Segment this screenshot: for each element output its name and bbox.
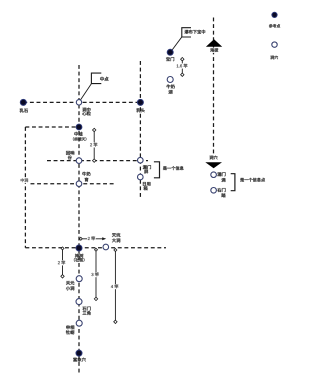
dimension line 2竿 upper <box>89 128 98 162</box>
callout text 瀑布下宝中 <box>184 30 205 34</box>
node 回响谷 <box>66 151 82 164</box>
node 漏门屏 <box>138 157 151 173</box>
legend 洞穴 <box>270 42 278 59</box>
node 牛奶育 <box>76 172 90 187</box>
dimension line 2竿 left <box>57 247 66 278</box>
triangle down 洞穴 <box>205 162 222 168</box>
node 洞中心粒 <box>76 100 90 116</box>
dimension line 2竿 horizontal <box>79 236 106 241</box>
wire main horizontal baseline y=102 <box>23 101 140 103</box>
leader line to node 宝门 <box>171 37 182 52</box>
node 富象穴 <box>73 350 86 362</box>
wire left vertical x=25.4 <box>24 127 26 248</box>
wire branch left from node 中蛙 y=127 <box>25 126 79 128</box>
dimension line 1.6竿 <box>176 58 188 77</box>
label 洞穴 above down-triangle <box>209 155 218 160</box>
node 天坑大洞 <box>103 233 120 250</box>
node 石门三角 <box>76 299 91 315</box>
label 中洞 on left wire <box>20 178 29 183</box>
dimension line 4竿 <box>110 249 119 324</box>
node 乳石 <box>20 99 28 112</box>
wire horizontal y=183.7 <box>31 183 115 185</box>
node 关元小洞 <box>66 276 82 291</box>
callout bracket 中点 <box>91 73 101 84</box>
wire bottom horizontal y=247.7 <box>25 247 166 249</box>
wire far-right vertical x=213.5 <box>213 18 215 157</box>
dimension line 3竿 <box>91 248 100 300</box>
node 神树（社苗） <box>74 245 85 262</box>
callout text 中点 <box>100 77 108 81</box>
wire horizontal y=160.6 <box>47 160 148 162</box>
node 日用箱 <box>138 174 151 190</box>
wire right vertical axis x=140.4 <box>139 61 141 198</box>
legend 参考点 <box>269 12 280 27</box>
triangle up 海拔 <box>206 39 222 53</box>
bracket text 是一个信息 <box>163 166 184 170</box>
bracket text 是一个信息点 <box>240 178 265 182</box>
bracket group 漏门/日用 <box>154 162 160 178</box>
leader line to node 洞中心粒 <box>80 83 92 101</box>
node 宝门 <box>166 49 174 61</box>
bracket group 漏门满/右门踏 <box>231 174 235 191</box>
node 乳头 <box>136 99 144 112</box>
node 牛奶湖 <box>166 77 174 94</box>
wire central vertical axis x=79 <box>78 65 80 374</box>
node 漏门满 <box>211 172 226 182</box>
node 申相牡蛎 <box>66 320 82 334</box>
node 中蛙（胡德天） <box>73 124 86 141</box>
callout bracket 瀑布下宝中 <box>182 28 191 37</box>
node 右门踏 <box>211 188 226 198</box>
